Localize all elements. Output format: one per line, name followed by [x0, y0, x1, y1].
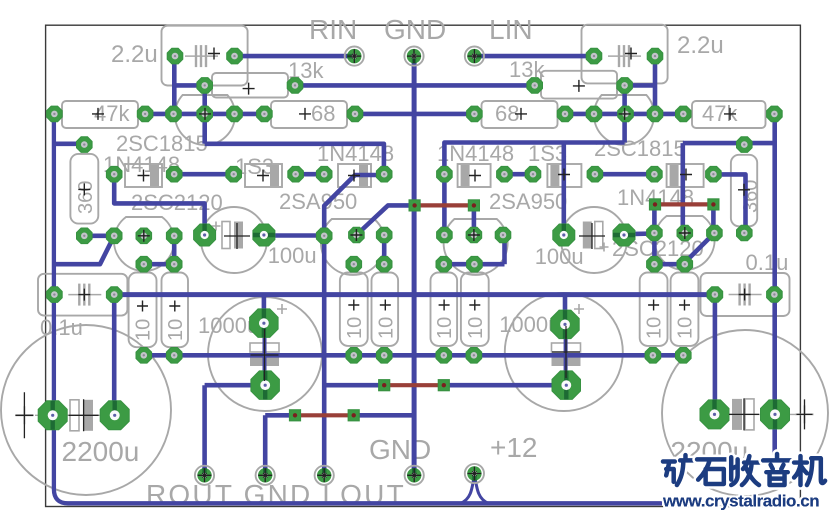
svg-text:0.1u: 0.1u — [40, 315, 83, 340]
svg-text:2.2u: 2.2u — [677, 32, 724, 59]
svg-text:10: 10 — [434, 317, 456, 339]
svg-text:2SC1815: 2SC1815 — [116, 131, 208, 156]
svg-text:10: 10 — [133, 319, 155, 341]
svg-text:10: 10 — [644, 317, 666, 339]
svg-text:360: 360 — [75, 181, 97, 214]
svg-text:2SA950: 2SA950 — [489, 189, 567, 214]
svg-text:2SC1815: 2SC1815 — [594, 136, 686, 161]
svg-text:10: 10 — [465, 317, 487, 339]
svg-text:GND: GND — [384, 14, 446, 45]
svg-text:10: 10 — [344, 317, 366, 339]
svg-text:100u: 100u — [535, 244, 584, 269]
svg-text:GND: GND — [369, 434, 431, 465]
svg-text:68: 68 — [311, 101, 335, 126]
svg-text:RIN: RIN — [309, 14, 357, 45]
svg-text:2200u: 2200u — [62, 436, 140, 467]
svg-text:13k: 13k — [509, 57, 545, 82]
svg-text:+12: +12 — [490, 432, 538, 463]
svg-text:10: 10 — [375, 317, 397, 339]
svg-text:www.crystalradio.cn: www.crystalradio.cn — [662, 492, 819, 511]
svg-text:2SA950: 2SA950 — [279, 189, 357, 214]
svg-text:LIN: LIN — [489, 14, 533, 45]
svg-text:100u: 100u — [268, 243, 317, 268]
svg-text:2.2u: 2.2u — [111, 41, 158, 68]
svg-text:10: 10 — [165, 319, 187, 341]
svg-text:0.1u: 0.1u — [746, 250, 789, 275]
svg-text:10: 10 — [675, 317, 697, 339]
